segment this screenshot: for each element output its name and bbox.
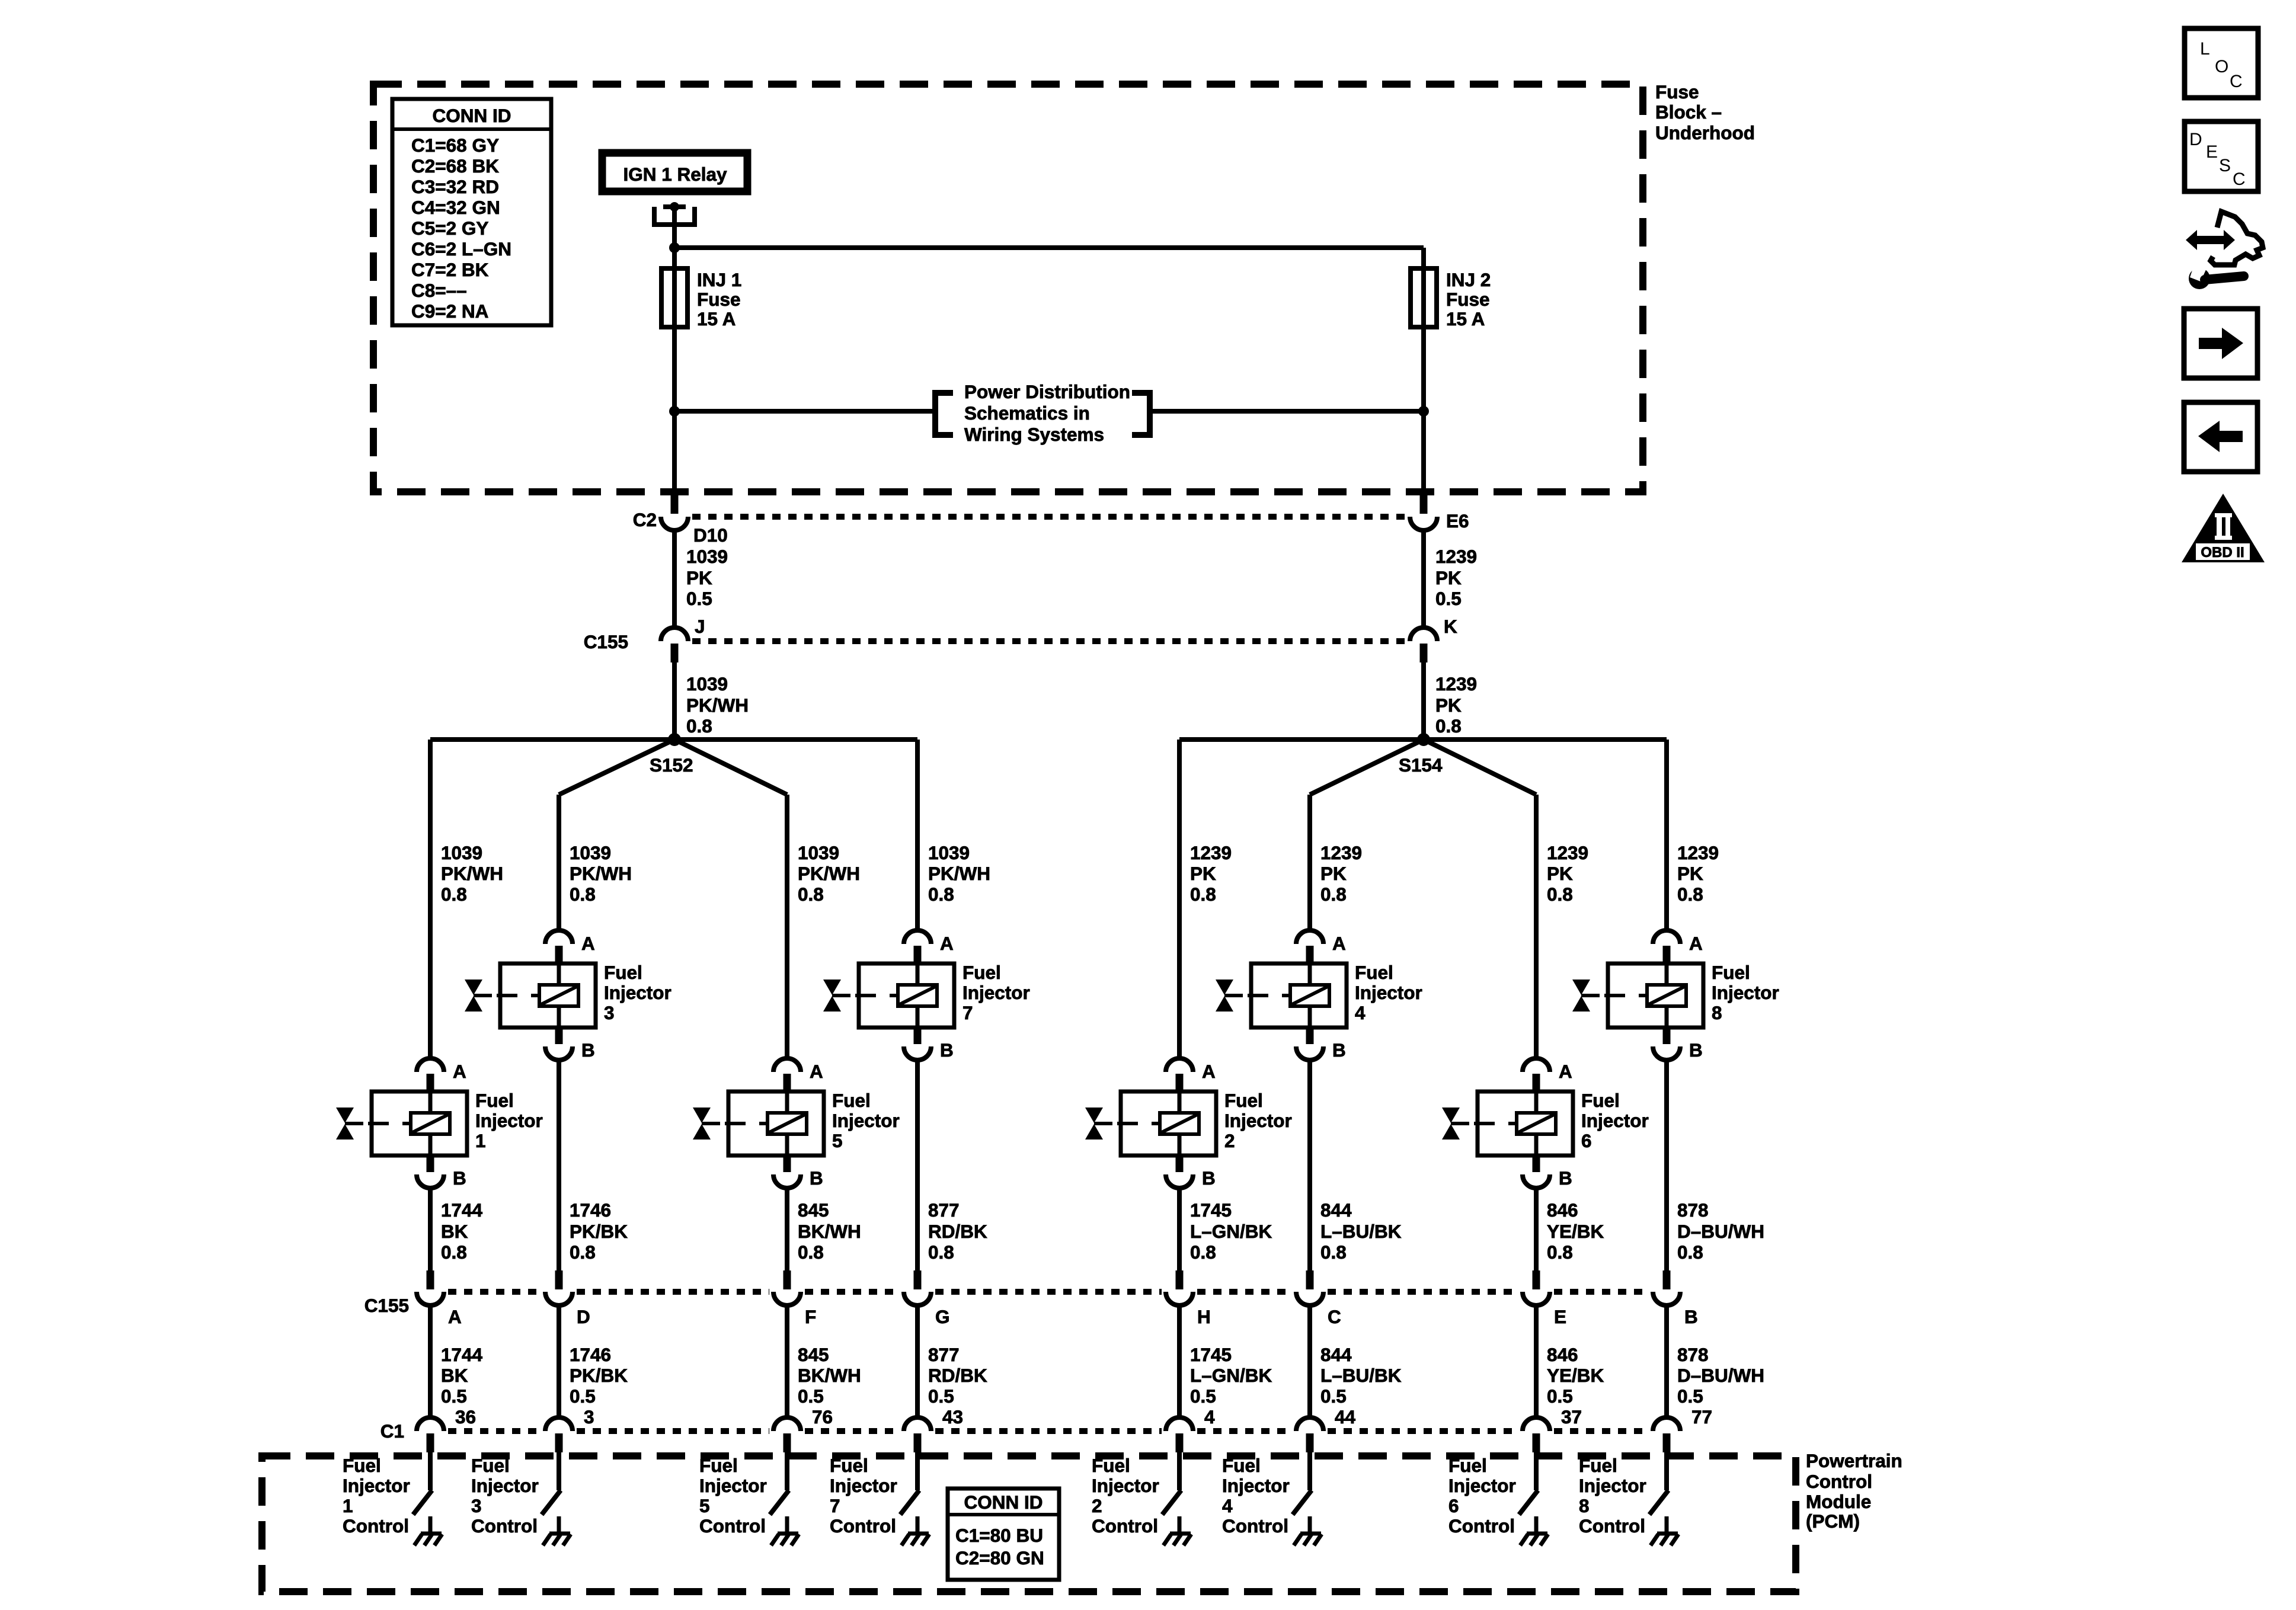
wire bus to injector 2 <box>1177 740 1182 1060</box>
label wire 1744 0.8 (col 1) <box>441 1199 483 1263</box>
svg-text:Injector: Injector <box>1224 1110 1292 1131</box>
svg-text:Powertrain: Powertrain <box>1806 1450 1902 1471</box>
svg-text:Fuel: Fuel <box>962 962 1001 983</box>
connector C155 pin A <box>417 1270 444 1305</box>
fuel injector 3 pin B connector <box>545 1028 595 1061</box>
label wire 1039 PK/WH 0.8 (branch col 2) <box>570 842 632 905</box>
svg-text:1746: 1746 <box>570 1199 611 1221</box>
svg-text:Control: Control <box>471 1515 538 1537</box>
svg-text:Fuel: Fuel <box>830 1455 868 1476</box>
injector 2 driver switch <box>1162 1490 1181 1515</box>
svg-text:INJ 1: INJ 1 <box>697 269 741 290</box>
svg-text:Control: Control <box>1092 1515 1158 1537</box>
svg-text:C8=––: C8=–– <box>411 280 467 301</box>
svg-text:Injector: Injector <box>830 1475 897 1496</box>
label wire 1746 0.8 (col 2) <box>570 1199 628 1263</box>
svg-text:A: A <box>1332 933 1346 954</box>
svg-text:YE/BK: YE/BK <box>1547 1365 1604 1386</box>
connector C1 pin 77 <box>1653 1417 1680 1452</box>
svg-text:1039: 1039 <box>798 842 839 863</box>
wire C1 pin into PCM (col 3) <box>785 1452 789 1490</box>
svg-text:1039: 1039 <box>570 842 611 863</box>
label E6 <box>1446 510 1469 532</box>
svg-text:E6: E6 <box>1446 510 1469 532</box>
svg-text:D–BU/WH: D–BU/WH <box>1677 1365 1764 1386</box>
label Fuel Injector 6 Control <box>1448 1455 1516 1537</box>
svg-text:0.8: 0.8 <box>798 884 824 905</box>
icon back arrow box <box>2184 402 2257 472</box>
ground (injector 5 driver) <box>771 1516 799 1545</box>
svg-text:0.5: 0.5 <box>441 1385 467 1407</box>
label pin 4 <box>1204 1406 1215 1427</box>
svg-text:S: S <box>2219 156 2231 175</box>
injector 6 driver switch <box>1519 1490 1538 1515</box>
label Fuel Injector 1 <box>475 1090 543 1151</box>
svg-text:0.5: 0.5 <box>1435 588 1462 609</box>
svg-text:C155: C155 <box>364 1295 409 1316</box>
svg-text:Module: Module <box>1806 1491 1871 1512</box>
label pin B <box>1684 1306 1698 1327</box>
svg-text:Injector: Injector <box>832 1110 900 1131</box>
relay output terminal (socket cup) <box>654 202 695 225</box>
fuel injector 2 pin B connector <box>1166 1156 1216 1189</box>
label pin 37 <box>1561 1406 1582 1427</box>
label INJ 1 Fuse 15 A <box>697 269 741 329</box>
fuel injector 7 pin B connector <box>904 1028 954 1061</box>
label wire 1744 0.5 (col 1) <box>441 1344 483 1407</box>
svg-text:0.8: 0.8 <box>686 715 712 737</box>
svg-text:D: D <box>2189 130 2202 149</box>
wire bus to injector 8 <box>1664 740 1669 932</box>
svg-text:845: 845 <box>798 1199 829 1221</box>
svg-text:1239: 1239 <box>1190 842 1232 863</box>
connector C1 pin 3 <box>545 1417 573 1452</box>
connector C155 pin E <box>1523 1270 1550 1305</box>
label C155 (bottom) <box>364 1295 409 1316</box>
svg-text:D: D <box>577 1306 590 1327</box>
svg-text:A: A <box>1559 1061 1572 1082</box>
label Fuel Injector 4 Control <box>1222 1455 1290 1537</box>
wire bus to injector 7 <box>915 740 920 932</box>
label wire 877 0.5 (col 4) <box>928 1344 987 1407</box>
svg-text:4: 4 <box>1222 1495 1233 1516</box>
wire splice bus right <box>1179 737 1667 742</box>
svg-text:Fuse: Fuse <box>1655 81 1699 103</box>
label pin 77 <box>1691 1406 1712 1427</box>
svg-text:Fuel: Fuel <box>1712 962 1750 983</box>
svg-text:1: 1 <box>475 1130 486 1151</box>
node junction below relay <box>669 242 680 253</box>
fuel injector 7 (solenoid body) <box>823 964 954 1028</box>
svg-text:8: 8 <box>1579 1495 1590 1516</box>
fuel injector 6 (solenoid body) <box>1442 1092 1573 1156</box>
svg-text:(PCM): (PCM) <box>1806 1510 1860 1532</box>
svg-text:844: 844 <box>1320 1199 1352 1221</box>
svg-text:A: A <box>810 1061 823 1082</box>
label pin 3 <box>584 1406 594 1427</box>
wire from power distribution note (right) <box>1152 409 1424 414</box>
label Fuse Block - Underhood <box>1655 81 1755 143</box>
wire C1 pin into PCM (col 7) <box>1534 1452 1539 1490</box>
svg-text:Control: Control <box>1806 1471 1872 1492</box>
svg-text:Control: Control <box>699 1515 766 1537</box>
svg-text:C1=80 BU: C1=80 BU <box>955 1525 1043 1546</box>
label C1 <box>380 1420 404 1442</box>
label wire 1039 PK/WH 0.8 (branch col 4) <box>928 842 990 905</box>
svg-text:Control: Control <box>1579 1515 1645 1537</box>
wire injector 1 pin B down <box>428 1188 433 1272</box>
node power distribution junction left <box>669 406 680 417</box>
svg-text:15 A: 15 A <box>697 308 736 329</box>
svg-text:J: J <box>695 616 705 637</box>
wire C1 pin into PCM (col 2) <box>557 1452 561 1490</box>
ground (injector 4 driver) <box>1294 1516 1322 1545</box>
svg-text:0.8: 0.8 <box>1677 884 1703 905</box>
svg-text:Block –: Block – <box>1655 101 1722 123</box>
connector C1 pin 37 <box>1523 1417 1550 1452</box>
wire C1 pin into PCM (col 4) <box>915 1452 920 1490</box>
svg-text:Injector: Injector <box>1222 1475 1290 1496</box>
svg-text:0.8: 0.8 <box>1190 1241 1216 1263</box>
fuel injector 5 pin A connector <box>773 1058 823 1093</box>
svg-text:1746: 1746 <box>570 1344 611 1365</box>
svg-text:2: 2 <box>1092 1495 1102 1516</box>
label D10 <box>693 524 728 546</box>
svg-text:C4=32 GN: C4=32 GN <box>411 197 500 218</box>
svg-text:G: G <box>935 1306 950 1327</box>
svg-text:4: 4 <box>1355 1002 1366 1023</box>
svg-text:Injector: Injector <box>1712 982 1779 1003</box>
svg-text:C1=68 GY: C1=68 GY <box>411 135 499 156</box>
svg-text:5: 5 <box>699 1495 710 1516</box>
wire C155 G down <box>915 1305 920 1419</box>
label wire 845 0.5 (col 3) <box>798 1344 861 1407</box>
label wire 878 0.8 (col 8) <box>1677 1199 1764 1263</box>
svg-text:BK: BK <box>441 1221 468 1242</box>
svg-text:0.8: 0.8 <box>570 1241 596 1263</box>
svg-text:6: 6 <box>1581 1130 1592 1151</box>
connector C1 pin 43 <box>904 1417 931 1452</box>
connector C155 pin H <box>1166 1270 1193 1305</box>
svg-text:L–BU/BK: L–BU/BK <box>1320 1365 1402 1386</box>
wire splice bus left <box>430 737 917 742</box>
svg-text:PK/WH: PK/WH <box>798 863 860 884</box>
label pin G <box>935 1306 950 1327</box>
wire C155 C down <box>1307 1305 1312 1419</box>
connector C155 pin F <box>773 1270 801 1305</box>
fuel injector 8 pin A connector <box>1653 930 1703 965</box>
svg-text:Fuel: Fuel <box>699 1455 738 1476</box>
label Fuel Injector 1 Control <box>343 1455 410 1537</box>
svg-text:8: 8 <box>1712 1002 1722 1023</box>
svg-text:3: 3 <box>584 1406 594 1427</box>
wire injector 7 pin B down <box>915 1060 920 1272</box>
svg-text:Fuel: Fuel <box>475 1090 514 1111</box>
wire S152 branch to injector 5 <box>674 740 787 1060</box>
svg-text:0.5: 0.5 <box>798 1385 824 1407</box>
svg-text:877: 877 <box>928 1199 960 1221</box>
svg-text:5: 5 <box>832 1130 843 1151</box>
svg-text:Fuse: Fuse <box>1446 289 1490 310</box>
svg-text:B: B <box>1559 1167 1572 1189</box>
label pin 76 <box>812 1406 833 1427</box>
svg-text:Fuel: Fuel <box>1092 1455 1130 1476</box>
svg-text:C2=80 GN: C2=80 GN <box>955 1547 1044 1569</box>
svg-text:Fuel: Fuel <box>1448 1455 1487 1476</box>
svg-text:0.8: 0.8 <box>1320 884 1347 905</box>
svg-text:0.8: 0.8 <box>1547 1241 1573 1263</box>
svg-text:77: 77 <box>1691 1406 1712 1427</box>
injector 5 driver switch <box>770 1490 789 1515</box>
ground (injector 2 driver) <box>1163 1516 1191 1545</box>
svg-text:PK/WH: PK/WH <box>441 863 503 884</box>
connector row C2/E6 dotted line <box>692 514 1406 520</box>
svg-text:1239: 1239 <box>1435 673 1477 694</box>
injector 3 driver switch <box>542 1490 561 1515</box>
wire C1 pin into PCM (col 8) <box>1664 1452 1669 1490</box>
svg-text:1745: 1745 <box>1190 1344 1232 1365</box>
svg-text:1745: 1745 <box>1190 1199 1232 1221</box>
svg-text:Fuel: Fuel <box>1581 1090 1620 1111</box>
label wire 1745 0.8 (col 5) <box>1190 1199 1272 1263</box>
label wire 1039 PK/WH 0.8 (branch col 3) <box>798 842 860 905</box>
connector C1 pin 76 <box>773 1417 801 1452</box>
label wire 846 0.8 (col 7) <box>1547 1199 1604 1263</box>
svg-text:Injector: Injector <box>343 1475 410 1496</box>
svg-text:Fuel: Fuel <box>343 1455 381 1476</box>
icon LOC box <box>2185 28 2258 98</box>
svg-text:0.8: 0.8 <box>1190 884 1216 905</box>
CONN ID table (PCM) <box>948 1489 1059 1580</box>
svg-text:CONN ID: CONN ID <box>964 1491 1043 1513</box>
svg-text:B: B <box>810 1167 823 1189</box>
icon DESC box <box>2185 121 2258 191</box>
label pin D <box>577 1306 590 1327</box>
label wire 1039 PK 0.5 <box>686 546 728 609</box>
svg-text:Injector: Injector <box>604 982 671 1003</box>
label Fuel Injector 3 Control <box>471 1455 539 1537</box>
label C2 <box>633 509 657 530</box>
label Fuel Injector 4 <box>1355 962 1422 1023</box>
svg-text:878: 878 <box>1677 1199 1709 1221</box>
ground (injector 6 driver) <box>1520 1516 1548 1545</box>
svg-text:PK: PK <box>1320 863 1347 884</box>
injector 7 driver switch <box>900 1490 919 1515</box>
svg-text:1239: 1239 <box>1320 842 1362 863</box>
fuel injector 3 pin A connector <box>545 930 595 965</box>
label pin A <box>448 1306 462 1327</box>
connector C155 pin J <box>661 628 688 662</box>
fuel injector 2 pin A connector <box>1166 1058 1216 1093</box>
svg-text:4: 4 <box>1204 1406 1215 1427</box>
svg-text:0.8: 0.8 <box>1547 884 1573 905</box>
connector C155 pin G <box>904 1270 931 1305</box>
label C155 (top) <box>584 631 628 652</box>
svg-text:0.5: 0.5 <box>1547 1385 1573 1407</box>
svg-text:36: 36 <box>455 1406 476 1427</box>
svg-text:C9=2 NA: C9=2 NA <box>411 300 488 322</box>
svg-text:B: B <box>1684 1306 1698 1327</box>
svg-text:C3=32 RD: C3=32 RD <box>411 176 499 197</box>
wire C1 pin into PCM (col 6) <box>1307 1452 1312 1490</box>
svg-text:0.8: 0.8 <box>798 1241 824 1263</box>
wire to power distribution note (left) <box>674 409 933 414</box>
svg-text:A: A <box>581 933 595 954</box>
svg-text:Power Distribution: Power Distribution <box>964 381 1130 402</box>
wire injector 4 pin B down <box>1307 1060 1312 1272</box>
wire injector 6 pin B down <box>1534 1188 1539 1272</box>
svg-text:Injector: Injector <box>1579 1475 1646 1496</box>
connector C1 pin 36 <box>417 1417 444 1452</box>
label wire 1745 0.5 (col 5) <box>1190 1344 1272 1407</box>
svg-text:846: 846 <box>1547 1199 1578 1221</box>
svg-text:0.8: 0.8 <box>1435 715 1462 737</box>
fuel injector 1 (solenoid body) <box>336 1092 467 1156</box>
svg-text:L–BU/BK: L–BU/BK <box>1320 1221 1402 1242</box>
svg-text:PK/BK: PK/BK <box>570 1365 628 1386</box>
svg-text:0.5: 0.5 <box>1320 1385 1347 1407</box>
ground (injector 8 driver) <box>1651 1516 1678 1545</box>
svg-text:0.5: 0.5 <box>570 1385 596 1407</box>
label Fuel Injector 7 <box>962 962 1030 1023</box>
svg-text:7: 7 <box>830 1495 840 1516</box>
ground (injector 3 driver) <box>543 1516 571 1545</box>
wire C2 to J <box>672 530 677 629</box>
svg-text:INJ 2: INJ 2 <box>1446 269 1491 290</box>
svg-text:0.8: 0.8 <box>928 1241 954 1263</box>
svg-text:A: A <box>453 1061 466 1082</box>
injector 8 driver switch <box>1649 1490 1668 1515</box>
wire C155 E down <box>1534 1305 1539 1419</box>
wire INJ2 fuse to E6 <box>1421 327 1426 495</box>
wire E6 to K <box>1421 530 1426 629</box>
svg-text:Fuel: Fuel <box>1355 962 1393 983</box>
svg-text:PK: PK <box>1435 694 1462 716</box>
svg-text:Injector: Injector <box>1092 1475 1159 1496</box>
svg-text:A: A <box>448 1306 462 1327</box>
svg-text:C: C <box>2230 72 2243 91</box>
svg-text:2: 2 <box>1224 1130 1235 1151</box>
label Fuel Injector 7 Control <box>830 1455 897 1537</box>
label pin 43 <box>942 1406 963 1427</box>
ground (injector 1 driver) <box>414 1516 442 1545</box>
svg-text:PK/BK: PK/BK <box>570 1221 628 1242</box>
fuse block underhood dashed boundary <box>373 84 1643 492</box>
svg-text:0.8: 0.8 <box>928 884 954 905</box>
svg-text:PK/WH: PK/WH <box>686 694 749 716</box>
label pin H <box>1197 1306 1211 1327</box>
icon OBD II warning triangle <box>2182 494 2265 562</box>
label wire 1239 PK 0.8 <box>1435 673 1477 737</box>
svg-text:Control: Control <box>830 1515 896 1537</box>
svg-text:Fuel: Fuel <box>1222 1455 1261 1476</box>
svg-text:B: B <box>581 1039 595 1061</box>
label Fuel Injector 5 Control <box>699 1455 767 1537</box>
splice S152 <box>650 733 693 776</box>
svg-text:A: A <box>1202 1061 1216 1082</box>
svg-text:1239: 1239 <box>1547 842 1588 863</box>
wire S154 branch to injector 4 <box>1310 740 1424 932</box>
svg-text:846: 846 <box>1547 1344 1578 1365</box>
label wire 1039 PK/WH 0.8 <box>686 673 749 737</box>
fuel injector 3 (solenoid body) <box>465 964 596 1028</box>
svg-text:44: 44 <box>1335 1406 1356 1427</box>
fuel injector 4 pin A connector <box>1296 930 1346 965</box>
fuel injector 4 pin B connector <box>1296 1028 1346 1061</box>
svg-text:6: 6 <box>1448 1495 1459 1516</box>
svg-text:S152: S152 <box>650 754 693 776</box>
connector C155 pin D <box>545 1270 573 1305</box>
svg-text:Injector: Injector <box>962 982 1030 1003</box>
svg-text:0.5: 0.5 <box>1190 1385 1216 1407</box>
svg-text:15 A: 15 A <box>1446 308 1485 329</box>
svg-text:0.8: 0.8 <box>1320 1241 1347 1263</box>
label wire 844 0.5 (col 6) <box>1320 1344 1402 1407</box>
svg-text:Injector: Injector <box>1581 1110 1649 1131</box>
wire S154 branch to injector 6 <box>1424 740 1536 1060</box>
wire relay to junction <box>672 207 677 248</box>
svg-text:C: C <box>1328 1306 1341 1327</box>
fuel injector 5 pin B connector <box>773 1156 823 1189</box>
svg-text:C2=68 BK: C2=68 BK <box>411 155 499 177</box>
svg-text:PK: PK <box>1190 863 1216 884</box>
connector E6 <box>1410 493 1437 530</box>
svg-text:C155: C155 <box>584 631 628 652</box>
svg-text:PK: PK <box>1547 863 1573 884</box>
svg-text:Injector: Injector <box>471 1475 539 1496</box>
svg-text:1039: 1039 <box>686 673 728 694</box>
svg-text:Wiring Systems: Wiring Systems <box>964 424 1104 445</box>
svg-text:L–GN/BK: L–GN/BK <box>1190 1221 1272 1242</box>
svg-text:C6=2 L–GN: C6=2 L–GN <box>411 238 511 260</box>
svg-text:1744: 1744 <box>441 1344 483 1365</box>
wire bus to injector 1 <box>428 740 433 1060</box>
svg-text:C1: C1 <box>380 1420 404 1442</box>
label K <box>1444 616 1457 637</box>
label wire 1239 PK 0.5 <box>1435 546 1477 609</box>
PCM dashed boundary <box>262 1456 1796 1592</box>
connector C1 pin 4 <box>1166 1417 1193 1452</box>
svg-text:37: 37 <box>1561 1406 1582 1427</box>
wire top feed to INJ 2 fuse <box>674 248 1424 273</box>
svg-text:C5=2 GY: C5=2 GY <box>411 217 488 239</box>
wire C155 H down <box>1177 1305 1182 1419</box>
svg-text:0.8: 0.8 <box>441 1241 467 1263</box>
svg-text:RD/BK: RD/BK <box>928 1221 987 1242</box>
wire C155 B down <box>1664 1305 1669 1419</box>
label pin C <box>1328 1306 1341 1327</box>
label wire 1239 PK 0.8 (branch col 7) <box>1547 842 1588 905</box>
svg-text:B: B <box>1332 1039 1346 1061</box>
connector C155 pin B <box>1653 1270 1680 1305</box>
svg-text:1039: 1039 <box>928 842 970 863</box>
label Fuel Injector 2 <box>1224 1090 1292 1151</box>
wire K to S154 <box>1421 662 1426 740</box>
fuse INJ 1 15A <box>661 268 687 327</box>
svg-text:O: O <box>2215 57 2228 76</box>
label Fuel Injector 6 <box>1581 1090 1649 1151</box>
svg-text:F: F <box>805 1306 816 1327</box>
svg-text:Control: Control <box>343 1515 409 1537</box>
svg-text:IGN 1 Relay: IGN 1 Relay <box>623 164 727 185</box>
svg-text:844: 844 <box>1320 1344 1352 1365</box>
svg-text:0.5: 0.5 <box>928 1385 954 1407</box>
svg-text:0.5: 0.5 <box>686 588 712 609</box>
label INJ 2 Fuse 15 A <box>1446 269 1491 329</box>
label J <box>695 616 705 637</box>
svg-text:Schematics in: Schematics in <box>964 402 1090 424</box>
svg-text:1039: 1039 <box>686 546 728 567</box>
